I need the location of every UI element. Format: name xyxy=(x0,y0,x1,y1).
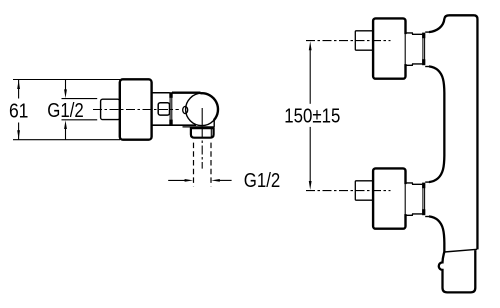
extension line top of 61 xyxy=(13,79,120,81)
G1/2 arrowhead top pointing down xyxy=(64,89,67,98)
valve knob circle xyxy=(186,93,218,125)
outlet nut xyxy=(191,128,214,138)
G1/2 arrow stem top xyxy=(65,80,67,91)
body right edge thinning top valve xyxy=(404,34,408,64)
outlet right side line xyxy=(213,120,215,127)
handle cap top valve xyxy=(355,31,373,50)
joint line a bottom valve xyxy=(422,184,424,215)
outlet centerline vertical first dash xyxy=(201,108,203,126)
knob outer thick arc xyxy=(200,93,218,120)
safety button oval xyxy=(183,106,188,113)
arrowhead 61 bottom xyxy=(17,130,20,139)
arrowhead 150 top xyxy=(309,41,312,50)
outlet dimension line left xyxy=(168,179,185,181)
body top edge side view thin part xyxy=(152,92,170,94)
tailpiece stub top valve lower xyxy=(425,66,429,68)
svg-text:150±15: 150±15 xyxy=(284,106,340,128)
joint tick top-upper xyxy=(422,33,425,39)
body bottom edge side view xyxy=(152,124,196,126)
body joint line b xyxy=(171,94,173,125)
joint line b bottom valve xyxy=(424,184,426,215)
valve body bottom xyxy=(373,168,405,228)
handle cap bottom valve xyxy=(355,181,373,200)
svg-text:61: 61 xyxy=(9,100,29,122)
extension line bottom of 61 xyxy=(13,139,120,141)
outlet nut inner line xyxy=(210,128,212,137)
dimension line 61 lower segment xyxy=(18,123,20,140)
arrowhead 150 bottom xyxy=(309,181,312,190)
supply pipe left edge below bottom valve xyxy=(429,216,444,252)
centerline horizontal left view xyxy=(93,109,179,111)
joint line b top valve xyxy=(424,34,426,65)
outlet centerline vertical dashed rest xyxy=(201,129,203,169)
svg-text:G1/2: G1/2 xyxy=(244,170,280,192)
temp limiter knob xyxy=(158,103,169,115)
outlet dimension arrow right-pointing xyxy=(185,179,194,182)
G1/2 arrow stem bottom xyxy=(65,128,67,140)
body joint tick upper xyxy=(169,92,172,98)
supply pipe top outline with right edge xyxy=(429,15,477,249)
G1/2 arrowhead bottom pointing up xyxy=(64,120,67,129)
body joint tick lower xyxy=(169,120,172,125)
centerline bottom valve xyxy=(306,190,391,192)
body top edge side view thick part xyxy=(172,91,201,93)
svg-text:G1/2: G1/2 xyxy=(47,100,84,122)
supply pipe left edge between valves xyxy=(429,66,444,182)
body right edge thinning bottom valve xyxy=(404,184,408,214)
pipe outlet end piece xyxy=(439,250,476,292)
dimension line 150 lower xyxy=(309,127,311,183)
cartridge neck bottom valve upper line xyxy=(405,183,422,184)
cartridge neck bottom valve lower line xyxy=(405,214,422,215)
outlet dimension arrow left-pointing xyxy=(211,179,220,182)
inlet connector xyxy=(101,99,120,119)
joint line a top valve xyxy=(422,34,424,65)
extension line G1/2 top xyxy=(62,98,98,100)
cartridge neck top valve lower line xyxy=(405,64,422,65)
joint tick top-lower xyxy=(422,59,425,65)
body joint line a xyxy=(169,94,171,125)
cartridge neck top valve upper line xyxy=(405,33,422,34)
outlet flange line xyxy=(183,126,215,128)
outlet flange step xyxy=(190,127,192,128)
joint tick bottom-upper xyxy=(422,183,425,189)
wall plate xyxy=(120,79,152,139)
pipe seam diagonal xyxy=(444,249,477,252)
dimension line 150 upper xyxy=(309,49,311,104)
joint tick bottom-lower xyxy=(422,209,425,215)
thread dashed line left xyxy=(193,143,195,187)
thread dashed line right xyxy=(210,143,212,187)
dimension line 61 upper segment xyxy=(18,80,20,99)
tailpiece stub bottom valve upper xyxy=(425,181,429,183)
centerline top valve xyxy=(306,40,391,42)
valve body top xyxy=(373,18,405,78)
arrowhead 61 top xyxy=(17,80,20,89)
tailpiece stub top valve upper xyxy=(425,31,429,33)
outlet dimension line right xyxy=(219,179,231,181)
extension line G1/2 bottom xyxy=(62,119,98,121)
tailpiece stub bottom valve lower xyxy=(425,216,429,218)
